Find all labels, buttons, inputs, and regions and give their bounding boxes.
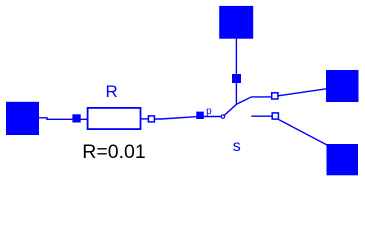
wire from n2 to terminal block T4 (279, 120, 327, 145)
pin junction J3 (filled square on control wire) (232, 74, 241, 83)
wire from n1 to terminal block T3 (278, 89, 326, 96)
open pin square of resistor (right pin) (148, 116, 154, 122)
wire from T1 to resistor R (39, 118, 88, 120)
svg-text:R=0.01: R=0.01 (82, 141, 145, 163)
pin junction J2 (filled square on wire) (196, 112, 204, 119)
svg-text:R: R (106, 82, 118, 101)
wire stub from resistor right edge to its open pin square (141, 118, 149, 120)
terminal block T4 (right bottom) (327, 144, 359, 175)
svg-text:s: s (233, 138, 241, 155)
switch S lower contact stub (251, 115, 272, 117)
switch S pivot circle (221, 115, 224, 118)
terminal block T3 (right top) (326, 70, 359, 102)
terminal block T1 (left) (6, 102, 39, 135)
terminal block T2 (top, control) (219, 6, 253, 39)
open pin square of switch upper contact n1 (272, 93, 278, 99)
wire from resistor pin to switch pin p (155, 116, 222, 119)
control wire from T2 down to switch arm (235, 39, 237, 105)
switch S arm (224, 97, 271, 115)
pin junction J1 (filled square on wire) (72, 114, 80, 122)
resistor R body (88, 108, 141, 129)
open pin square of switch lower contact n2 (272, 113, 278, 119)
svg-text:p: p (206, 106, 212, 117)
